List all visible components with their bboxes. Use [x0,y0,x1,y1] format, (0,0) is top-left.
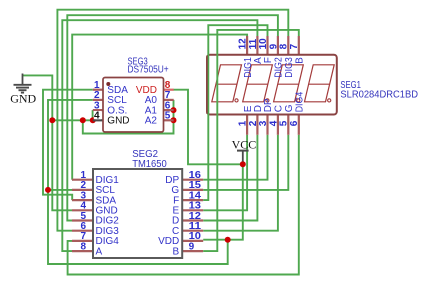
svg-text:4: 4 [268,120,279,126]
wire A0-A1-A2 wrap (DS7505 right pins to GND) [83,100,174,134]
wire O.S. jog (DS7505.3 to GND) [92,110,94,120]
DS7505 pin number 4 (black) [94,111,101,122]
SEG1 seven-segment digits [212,65,334,102]
svg-text:5: 5 [165,110,171,121]
wire net GND branch (to DS7505.4) [52,119,93,121]
svg-text:8: 8 [80,241,86,252]
DS7505 label VDD (red) [136,85,157,96]
wire net B (TM1650.9 to SEG1.7) [203,30,299,251]
DS7505 labels A0 A1 A2 [145,95,158,126]
DS7505 pin numbers left [94,80,100,111]
svg-text:DIG2: DIG2 [274,57,285,78]
svg-text:7: 7 [289,43,300,49]
SEG1 reference [340,80,361,91]
VCC power symbol [237,151,249,162]
svg-text:6: 6 [289,120,300,126]
display SEG1 box [207,55,337,115]
svg-text:DP: DP [263,98,274,112]
svg-text:TM1650: TM1650 [132,159,167,170]
TM1650 pin stubs [72,180,203,251]
junction GND/A-wrap [80,117,86,123]
SEG1 rotated pin numbers [238,38,301,126]
svg-text:B: B [295,57,306,64]
junction A0/A1 (DS7505.6) [171,107,177,113]
junction A2 (DS7505.5) [171,117,177,123]
svg-text:9: 9 [189,241,195,252]
wire net SCL branch (TM1650.2) [48,189,72,191]
svg-text:9: 9 [268,43,279,49]
DS7505 pin number 8 (red) [165,80,171,91]
DS7505 stubs pins 7-5 [164,100,174,120]
svg-text:10: 10 [258,38,269,50]
junction VCC symbol [240,161,246,167]
svg-text:3: 3 [258,120,269,126]
SEG1 pin stubs [247,36,299,135]
svg-text:A: A [96,246,103,257]
SEG1 value SLR0284DRC1BD [340,89,418,100]
wire net SCL (DS7505.2 down to bottom wrap to VDD) [48,100,228,264]
DS7505 labels SDA SCL O.S. [107,85,128,116]
ground symbol [14,74,32,93]
svg-text:F: F [263,57,274,63]
wire net SDA (DS7505.1 to TM1650.3) [43,90,93,200]
DS7505 pin1 mark dot [106,82,110,86]
junction SCL/TM1650.2 [45,187,51,193]
wire net E (TM1650.13 to SEG1.1) [203,135,247,211]
wire net F (TM1650.14 to SEG1.10) [203,25,267,200]
TM1650 pin labels [96,175,180,257]
DS7505 label GND (black) [107,116,129,127]
svg-text:A2: A2 [145,116,158,127]
wire net GND (symbol to TM1650.4) [23,75,73,210]
SEG1 rotated pin labels [243,57,306,112]
junction GND vertical [49,117,55,123]
wire net C (TM1650.11 to SEG1.4) [203,135,278,231]
TM1650 pin numbers [80,170,201,252]
DS7505 reference SEG3 [128,57,149,68]
svg-text:8: 8 [279,43,290,49]
wire net DIG2 (TM1650.5 to SEG1.9) [67,15,278,220]
wire net DIG3 (TM1650.6 to SEG1.8) [57,10,288,231]
DS7505 value DS7505U+ [128,65,169,76]
svg-text:SLR0284DRC1BD: SLR0284DRC1BD [340,89,418,100]
TM1650 value [132,159,167,170]
svg-text:DIG4: DIG4 [295,91,306,112]
VCC label [232,138,257,152]
svg-text:VCC: VCC [232,138,257,152]
svg-text:B: B [173,246,180,257]
wire net DIG4 (TM1650.7 to SEG1.6 bottom wrap) [68,135,299,275]
svg-text:G: G [284,104,295,112]
SEG1 box left edge over wire blend [206,56,208,114]
chip U2 body TM1650 box [93,169,182,258]
resistor-side stubs DS7505 pins 1-3 [93,90,103,110]
DS7505 pin 8 stub (VDD, red) [164,89,174,91]
svg-text:C: C [274,105,285,112]
wire net D (TM1650.12 to SEG1.2) [203,135,257,221]
op-amp U1 body DS7505 box [103,78,164,133]
wire net A (TM1650.8 to SEG1.11) [62,20,257,251]
svg-text:4: 4 [94,111,100,122]
wire net VCC (VCC symbol down to TM1650.10) [203,161,243,240]
TM1650 reference SEG2 [132,149,158,160]
ground label GND [10,91,36,105]
wire net G (TM1650.15 to SEG1.5) [203,135,288,190]
svg-text:5: 5 [279,120,290,126]
DS7505 pin numbers 7-5 [165,90,171,121]
DS7505 pin 4 stub (GND, dark) [93,119,103,121]
svg-text:DIG3: DIG3 [284,57,295,78]
svg-text:GND: GND [10,91,36,105]
junction GND/DS7505.4 [90,117,96,123]
wire net DP (TM1650.16 to SEG1.3) [203,135,267,180]
junction VDD bottom wrap [225,237,231,243]
wire net DIG1 (TM1650.1 to SEG1.12) [72,35,247,180]
svg-text:DS7505U+: DS7505U+ [128,65,169,76]
wire net VCC (DS7505.8 VDD to VCC junction) [174,90,243,165]
svg-text:GND: GND [107,116,129,127]
